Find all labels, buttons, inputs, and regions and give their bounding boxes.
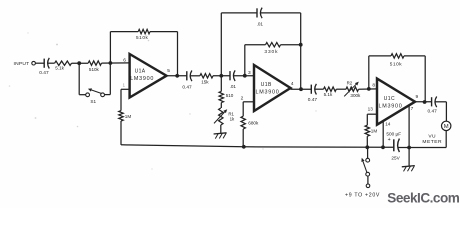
svg-text:510k: 510k bbox=[390, 61, 402, 66]
label 330k bbox=[264, 49, 278, 55]
wire 510k to node B / U1A pin 6 bbox=[102, 62, 130, 64]
svg-text:510k: 510k bbox=[136, 35, 148, 40]
label S1 bbox=[90, 99, 96, 104]
wire cap to meter bbox=[435, 102, 446, 121]
op-amp U1B LM3900 bbox=[254, 65, 291, 111]
junction pin 14 / V+ rail bbox=[381, 145, 385, 149]
label 5.1k bbox=[55, 66, 64, 71]
svg-text:5.1k: 5.1k bbox=[324, 92, 333, 97]
feedback resistor 510k (U1A) bbox=[110, 29, 177, 75]
capacitor 0.47 (meter coupling) bbox=[432, 97, 437, 108]
label 0.47 (meter cap) bbox=[428, 109, 438, 115]
wire cap to 5.1k bbox=[315, 88, 324, 90]
svg-text:0.47: 0.47 bbox=[428, 109, 438, 115]
svg-text:SeekIC.com: SeekIC.com bbox=[387, 191, 459, 206]
svg-text:1M: 1M bbox=[125, 114, 132, 119]
svg-text:U1A: U1A bbox=[135, 68, 146, 74]
label 510k (U1A feedback) bbox=[136, 35, 148, 40]
resistor 1M (U1A bias to V+) bbox=[119, 89, 130, 121]
wire R2 to U1C pin 8 bbox=[359, 88, 378, 90]
svg-text:R2: R2 bbox=[347, 80, 353, 85]
pin 6 label (U1A) bbox=[123, 57, 126, 63]
wire INPUT to C1 bbox=[35, 62, 44, 64]
meter M1 (VU meter) bbox=[442, 121, 451, 130]
resistor 330k feedback (U1B) bbox=[245, 43, 301, 76]
label 1k (R1) bbox=[230, 116, 235, 121]
trimmer R1 1k bbox=[214, 103, 227, 125]
label 1M (U1A) bbox=[125, 114, 132, 119]
wire U1C pin 7 to ground bbox=[408, 106, 410, 166]
pin 13 label (U1C lower input) bbox=[368, 107, 374, 112]
label LM3900 (U1C) bbox=[379, 104, 403, 110]
label 25V bbox=[391, 156, 400, 161]
junction node C bbox=[219, 74, 223, 78]
svg-text:U1C: U1C bbox=[384, 96, 395, 102]
svg-text:0.47: 0.47 bbox=[182, 84, 192, 90]
svg-text:0.47: 0.47 bbox=[308, 97, 318, 103]
watermark SeekIC.com bbox=[387, 191, 459, 206]
svg-text:300k: 300k bbox=[350, 93, 361, 98]
junction U1C output bbox=[423, 100, 427, 104]
svg-text:LM3900: LM3900 bbox=[256, 90, 280, 96]
label 1M (U1C) bbox=[371, 129, 378, 134]
resistor 5.1k (2nd) bbox=[324, 87, 337, 91]
label 300k (R2) bbox=[350, 93, 361, 98]
pin 1 label (U1A lower input) bbox=[123, 83, 126, 88]
resistor 510k (series) bbox=[88, 61, 101, 65]
junction 330k / .01 loop bbox=[299, 43, 303, 47]
label 0.47 (U1A output cap) bbox=[182, 84, 192, 90]
resistor 5.1k (input) bbox=[55, 61, 72, 65]
label LM3900 (U1A) bbox=[130, 76, 154, 82]
svg-text:2: 2 bbox=[241, 96, 244, 102]
capacitor 0.47 (U1A output) bbox=[187, 71, 192, 82]
pin 8 label (U1C) bbox=[372, 82, 375, 88]
label 680k bbox=[248, 120, 259, 125]
svg-text:6: 6 bbox=[123, 57, 126, 63]
svg-text:9: 9 bbox=[416, 94, 419, 100]
pin 9 label (U1C output) bbox=[416, 94, 419, 100]
junction 680k / V+ rail bbox=[242, 145, 246, 149]
resistor 15k bbox=[200, 74, 213, 78]
junction U1A output bbox=[175, 74, 179, 78]
label 510k (U1C feedback) bbox=[390, 61, 402, 66]
svg-text:13: 13 bbox=[368, 107, 374, 112]
feedback resistor 510k (U1C) bbox=[369, 54, 425, 102]
svg-text:1M: 1M bbox=[371, 129, 378, 134]
svg-text:680k: 680k bbox=[248, 120, 259, 125]
label .01 (feedback) bbox=[257, 21, 264, 26]
resistor 510 (node C shunt) bbox=[219, 76, 223, 103]
svg-text:U1B: U1B bbox=[261, 82, 272, 88]
potentiometer R2 300k bbox=[344, 82, 359, 97]
svg-text:8: 8 bbox=[372, 82, 375, 88]
wire U1A output bbox=[167, 75, 187, 77]
svg-text:.01: .01 bbox=[257, 21, 264, 26]
resistor 680k (U1B bias to V+) bbox=[241, 102, 254, 147]
svg-text:+9 TO +20V: +9 TO +20V bbox=[345, 192, 380, 198]
svg-text:M: M bbox=[444, 124, 449, 130]
svg-text:500 µF: 500 µF bbox=[386, 132, 401, 137]
svg-text:S1: S1 bbox=[90, 99, 96, 104]
label +9 TO +20V bbox=[345, 192, 380, 198]
junction node A bbox=[77, 61, 81, 65]
wire C1 to 5.1k bbox=[48, 62, 55, 64]
pin 4 label (U1B output) bbox=[291, 81, 294, 87]
svg-text:3: 3 bbox=[248, 70, 251, 76]
label U1B bbox=[261, 82, 272, 88]
label LM3900 (U1B) bbox=[256, 90, 280, 96]
wire meter to ground rail bbox=[445, 131, 447, 148]
svg-text:1k: 1k bbox=[230, 116, 235, 121]
capacitor .01 feedback (U1B outer loop) bbox=[221, 8, 300, 90]
junction 1M / V+ rail bbox=[365, 145, 369, 149]
wire 5.1k to node A bbox=[72, 62, 89, 64]
label VU METER bbox=[422, 134, 442, 146]
capacitor C1 0.47 bbox=[44, 58, 49, 69]
svg-text:4: 4 bbox=[291, 81, 294, 87]
svg-text:.01: .01 bbox=[230, 84, 237, 89]
op-amp U1A LM3900 bbox=[130, 54, 167, 98]
label + (500uF polarity) bbox=[388, 137, 391, 143]
svg-text:+: + bbox=[388, 137, 391, 143]
pin 5 label (U1A output) bbox=[167, 68, 170, 74]
junction U1B pin 3 node bbox=[243, 74, 247, 78]
scan speck bbox=[9, 32, 317, 169]
wire 15k to node C bbox=[213, 75, 230, 77]
svg-text:15k: 15k bbox=[201, 80, 209, 85]
switch S1 (bypasses 510k) bbox=[79, 63, 110, 97]
ground (below R1) bbox=[214, 133, 227, 139]
junction U1C pin 8 node bbox=[367, 87, 371, 91]
label INPUT bbox=[14, 61, 30, 67]
label 510k (series) bbox=[89, 67, 100, 72]
label 15k bbox=[201, 80, 209, 85]
svg-text:LM3900: LM3900 bbox=[379, 104, 403, 110]
junction pin 7 / ground rail bbox=[407, 146, 411, 150]
terminal INPUT bbox=[32, 61, 36, 65]
svg-text:510: 510 bbox=[226, 93, 234, 98]
label 510 bbox=[226, 93, 234, 98]
label U1C bbox=[384, 96, 395, 102]
pin 14 label (U1C V+ pin) bbox=[385, 122, 391, 127]
label 500 uF bbox=[386, 132, 401, 137]
op-amp U1C LM3900 bbox=[377, 79, 415, 125]
svg-text:7: 7 bbox=[411, 106, 414, 112]
label R1 bbox=[228, 111, 234, 116]
svg-text:INPUT: INPUT bbox=[14, 61, 30, 67]
terminal +9 TO +20V bbox=[366, 184, 370, 188]
label 0.47 (C1) bbox=[39, 70, 49, 76]
pin 2 label (U1B lower input) bbox=[241, 96, 244, 102]
wire cap to U1B pin 3 bbox=[233, 75, 254, 77]
capacitor 0.47 (U1B output) bbox=[311, 84, 316, 95]
svg-text:1: 1 bbox=[123, 83, 126, 88]
junction node B bbox=[109, 61, 113, 65]
svg-text:510k: 510k bbox=[89, 67, 100, 72]
svg-text:VU: VU bbox=[428, 134, 436, 140]
label 0.47 (U1B output cap) bbox=[308, 97, 318, 103]
wire R1 to ground bbox=[220, 125, 222, 134]
svg-text:0.47: 0.47 bbox=[39, 70, 49, 76]
svg-text:METER: METER bbox=[422, 139, 442, 145]
label .01 (coupling) bbox=[230, 84, 237, 89]
wire 5.1k to R2 bbox=[336, 88, 346, 90]
wire U1C output bbox=[415, 101, 432, 103]
wire U1B output bbox=[291, 88, 312, 90]
label U1A bbox=[135, 68, 146, 74]
switch S2 (power) bbox=[361, 147, 369, 184]
pin 7 label (U1C gnd pin) bbox=[411, 106, 414, 112]
wire U1C pin 14 to V+ rail bbox=[382, 121, 384, 147]
capacitor 500 uF 25V (V+ decoupling) bbox=[394, 139, 400, 153]
V+ rail wire bbox=[121, 145, 393, 148]
svg-text:5.1k: 5.1k bbox=[55, 66, 64, 71]
svg-text:5: 5 bbox=[167, 68, 170, 74]
junction U1B output bbox=[299, 87, 303, 91]
label 5.1k (2nd) bbox=[324, 92, 333, 97]
wire cap to 15k bbox=[190, 75, 200, 77]
svg-text:25V: 25V bbox=[391, 156, 400, 161]
svg-text:LM3900: LM3900 bbox=[130, 76, 154, 82]
label R2 bbox=[347, 80, 353, 85]
svg-text:14: 14 bbox=[385, 122, 391, 127]
svg-text:330k: 330k bbox=[264, 49, 278, 55]
pin 3 label (U1B) bbox=[248, 70, 251, 76]
ground (pin 7) bbox=[402, 166, 415, 172]
ground rail (meter return) bbox=[398, 147, 447, 149]
capacitor .01 (node C to U1B pin 3) bbox=[230, 70, 235, 81]
resistor 1M (U1C bias to V+) bbox=[365, 114, 377, 147]
junction V+ rail / power switch bbox=[366, 146, 369, 149]
wire 1M to V+ rail bbox=[120, 121, 122, 145]
